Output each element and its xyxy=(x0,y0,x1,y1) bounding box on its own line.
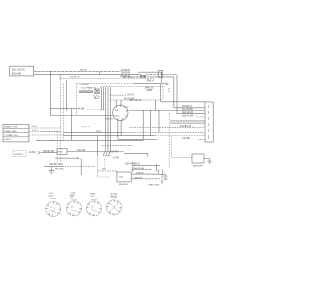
dashed wire xyxy=(110,99,163,101)
connector P4 xyxy=(107,200,122,215)
wire bundle vertical 1 xyxy=(101,87,103,110)
dashed wire R9 xyxy=(63,132,122,134)
svg-text:19A-BK GND: 19A-BK GND xyxy=(49,163,63,166)
wire xyxy=(155,164,157,172)
module box M1 xyxy=(117,172,131,182)
dashed wire xyxy=(122,132,205,134)
tiny mark xyxy=(168,89,170,91)
svg-text:RR MOD: RR MOD xyxy=(119,184,128,186)
ignition switch xyxy=(113,105,128,120)
big dashed box left xyxy=(60,78,62,162)
wire xyxy=(55,157,77,159)
svg-text:B S: B S xyxy=(115,110,119,112)
junction xyxy=(142,109,145,112)
inner dashed box left xyxy=(75,83,77,115)
switch S3 vertical xyxy=(110,87,112,150)
svg-text:12P: 12P xyxy=(90,196,94,198)
connector P2 xyxy=(67,201,82,216)
inner dashed left xyxy=(63,83,65,140)
dashed vertical right xyxy=(168,113,170,169)
left table box xyxy=(3,124,29,142)
wire xyxy=(103,155,111,157)
dashed vertical right 2 xyxy=(171,136,173,158)
svg-text:C START SIG: C START SIG xyxy=(4,134,18,137)
svg-text:21A-BK: 21A-BK xyxy=(136,172,144,175)
wire xyxy=(132,162,134,172)
dashed wire xyxy=(62,166,95,168)
solenoid box xyxy=(10,66,34,76)
ground wire xyxy=(44,166,62,168)
wire row R4 xyxy=(177,113,205,115)
svg-text:9A-OR-BK →: 9A-OR-BK → xyxy=(182,108,196,111)
inner dashed top xyxy=(76,82,134,84)
wire xyxy=(131,173,159,175)
connector box right xyxy=(205,102,213,142)
junction xyxy=(161,72,162,73)
svg-text:8KQ-H81: 8KQ-H81 xyxy=(12,73,22,75)
svg-text:C-A 6: C-A 6 xyxy=(48,195,54,198)
wire xyxy=(161,169,163,174)
wire row R8 xyxy=(130,127,206,129)
wire vertical xyxy=(154,100,156,111)
wire xyxy=(138,71,162,73)
wire row R2 xyxy=(174,107,205,109)
pin marks xyxy=(94,95,100,99)
svg-text:KEY SW 7A: KEY SW 7A xyxy=(129,99,142,102)
switch S2 vertical xyxy=(107,87,109,150)
svg-text:13A-BK →: 13A-BK → xyxy=(182,137,193,140)
label line xyxy=(71,198,77,200)
wire xyxy=(116,171,118,172)
wire vertical xyxy=(97,136,99,155)
svg-text:P-12 HARN SS: P-12 HARN SS xyxy=(81,87,96,90)
wire A xyxy=(34,71,121,73)
svg-text:7B-G: 7B-G xyxy=(96,131,101,133)
junction xyxy=(149,109,152,112)
svg-text:3A-OR-BLK HN: 3A-OR-BLK HN xyxy=(123,76,139,79)
svg-text:16A-TN: 16A-TN xyxy=(110,150,118,153)
svg-text:4A-OR: 4A-OR xyxy=(80,69,87,72)
wire bundle vertical 2 xyxy=(103,87,105,110)
arrow xyxy=(162,82,169,84)
dashed wire mid xyxy=(100,86,165,88)
dashed vertical xyxy=(56,131,58,163)
table line 1 xyxy=(3,128,29,130)
ground small xyxy=(161,182,164,184)
dashed vertical xyxy=(162,83,164,100)
wire stub xyxy=(161,174,163,181)
wire xyxy=(142,111,144,141)
svg-text:A BATT+ SOL: A BATT+ SOL xyxy=(4,126,18,129)
svg-text:4A-BR: 4A-BR xyxy=(78,108,85,111)
connector box marks xyxy=(208,105,210,139)
svg-text:O: O xyxy=(104,165,106,167)
wire xyxy=(67,151,124,153)
switch contacts xyxy=(104,150,111,156)
table wire 1 xyxy=(29,127,61,129)
wire xyxy=(133,165,160,167)
svg-text:B MAG GND: B MAG GND xyxy=(4,130,17,133)
svg-text:HR MTR: HR MTR xyxy=(15,154,24,156)
svg-text:BATTERY: BATTERY xyxy=(193,165,203,168)
connector pin row xyxy=(79,91,93,93)
wire row R5 xyxy=(196,116,205,118)
wire row R7 xyxy=(170,122,205,124)
connector P3 xyxy=(87,201,102,216)
wire xyxy=(150,111,152,136)
wire R11 xyxy=(118,138,157,140)
svg-text:1 2: 1 2 xyxy=(50,207,53,209)
wire xyxy=(147,76,174,78)
svg-text:SOL-SOLTN: SOL-SOLTN xyxy=(12,70,25,72)
wire B xyxy=(34,74,141,76)
junction xyxy=(51,140,52,141)
connector P1 xyxy=(46,202,61,217)
wire xyxy=(41,152,58,154)
wire xyxy=(161,73,163,84)
small dashed box left xyxy=(13,151,26,157)
wire xyxy=(204,159,210,162)
wire R10 xyxy=(63,135,155,137)
svg-text:BRN 20: BRN 20 xyxy=(145,87,154,89)
wire xyxy=(124,152,148,154)
wire to switch top 2 xyxy=(120,100,122,105)
wire xyxy=(70,109,72,141)
dashed vertical xyxy=(97,155,99,177)
switch S1 vertical xyxy=(105,87,107,150)
arrow xyxy=(77,157,80,159)
svg-text:RLY: RLY xyxy=(102,169,107,171)
svg-text:FR GND: FR GND xyxy=(55,169,64,171)
svg-text:20A-RD-BK: 20A-RD-BK xyxy=(133,167,145,170)
wire xyxy=(173,77,175,108)
svg-text:CON 6P: CON 6P xyxy=(81,84,90,86)
wire xyxy=(50,115,112,117)
ground battery xyxy=(208,161,212,164)
wire switch bottom 1 xyxy=(117,120,119,139)
svg-text:PNK A: PNK A xyxy=(147,80,154,83)
wire branch xyxy=(59,75,61,79)
table wire 2 xyxy=(29,131,40,133)
svg-text:6-P: 6-P xyxy=(70,197,74,199)
wire xyxy=(131,168,152,170)
dashed box bottom xyxy=(98,176,110,178)
connector J1 circles xyxy=(140,75,146,78)
battery box xyxy=(192,154,204,163)
relay K1 hatched box xyxy=(95,89,99,94)
wire xyxy=(161,101,205,103)
wire xyxy=(159,173,166,175)
wire to switch top 1 xyxy=(115,100,117,106)
dashed wire xyxy=(110,94,127,96)
label line xyxy=(91,198,97,200)
label line xyxy=(111,197,117,199)
component box xyxy=(57,149,67,155)
diode D1 xyxy=(164,176,168,179)
svg-text:D ACC: D ACC xyxy=(4,138,11,141)
wire row R6 xyxy=(170,120,205,122)
svg-text:HOUR SIG: HOUR SIG xyxy=(43,151,55,153)
dashed wire to battery xyxy=(172,157,192,159)
svg-text:12A-BK-W →: 12A-BK-W → xyxy=(180,125,194,128)
wire xyxy=(36,139,144,141)
junction stub xyxy=(99,72,101,75)
svg-text:T: T xyxy=(104,162,106,164)
tiny marks xyxy=(82,126,90,128)
wire switch right xyxy=(129,110,205,112)
dotted wire xyxy=(88,109,109,111)
dashed wire xyxy=(102,145,132,147)
svg-text:M G: M G xyxy=(116,116,120,118)
wire stub xyxy=(105,118,113,120)
ground xyxy=(49,167,55,174)
svg-text:FL B: FL B xyxy=(58,152,63,154)
svg-text:14-RD: 14-RD xyxy=(29,152,36,154)
wire switch bottom 2 xyxy=(120,120,122,136)
label line xyxy=(50,198,56,200)
wire xyxy=(176,75,178,114)
junction xyxy=(60,140,61,141)
junction xyxy=(57,140,58,141)
wire stub xyxy=(147,153,149,156)
svg-text:CHAS GND: CHAS GND xyxy=(148,184,160,187)
big dashed box top xyxy=(61,77,155,79)
wire xyxy=(158,169,160,174)
wire xyxy=(134,82,161,84)
svg-text:17-PK: 17-PK xyxy=(113,158,120,160)
dashed wire xyxy=(198,138,205,140)
wire xyxy=(146,74,177,76)
wire vertical xyxy=(66,80,68,111)
junction xyxy=(50,71,51,72)
svg-text:22A-GN: 22A-GN xyxy=(134,176,142,179)
table wire 2b xyxy=(40,131,61,133)
wire xyxy=(80,158,82,175)
wire from solenoid branch xyxy=(49,72,51,116)
dotted wire xyxy=(155,135,205,137)
svg-text:ST: ST xyxy=(126,107,129,109)
wire xyxy=(158,111,160,133)
wire stub xyxy=(165,174,167,176)
inline connector xyxy=(38,151,40,154)
svg-text:P: P xyxy=(104,160,106,162)
svg-text:5A-GY: 5A-GY xyxy=(127,93,134,96)
fuse F1 xyxy=(159,71,163,78)
svg-text:3 6: 3 6 xyxy=(71,207,74,209)
wire xyxy=(160,83,162,101)
svg-text:TCA: TCA xyxy=(119,175,124,178)
table line 2 xyxy=(3,132,29,134)
svg-text:11B-YL-BK →: 11B-YL-BK → xyxy=(182,116,196,118)
svg-text:1 9: 1 9 xyxy=(91,207,94,209)
wire xyxy=(131,178,160,180)
svg-text:AMM: AMM xyxy=(147,89,152,92)
wire xyxy=(50,108,77,110)
dashed wire xyxy=(98,170,117,172)
table wire 3 xyxy=(29,134,63,136)
junction xyxy=(158,109,161,112)
table line 3 xyxy=(3,136,29,138)
